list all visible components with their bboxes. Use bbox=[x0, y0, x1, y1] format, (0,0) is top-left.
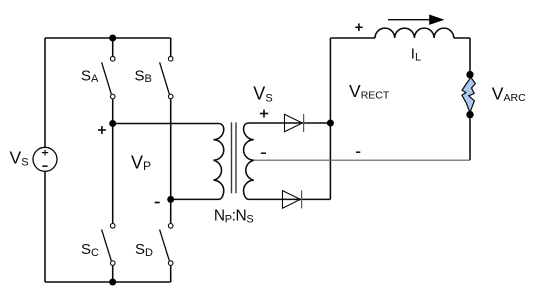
diode D1 (top) bbox=[285, 114, 304, 132]
wire right leg lower (arc bottom to return) bbox=[469, 115, 471, 161]
svg-text:VARC: VARC bbox=[492, 83, 526, 104]
svg-text:VP: VP bbox=[131, 152, 151, 173]
svg-text:VS: VS bbox=[10, 148, 29, 169]
wire left leg lower (Vs source to bottom bus) bbox=[44, 171, 46, 282]
wire leg A stub below switch SC bbox=[112, 266, 114, 282]
wire leg B stub below switch SD bbox=[170, 266, 172, 282]
wire bottom bus left bridge bbox=[45, 281, 171, 283]
node arc bottom terminal bbox=[466, 111, 473, 118]
transformer T1 secondary winding bbox=[244, 123, 285, 199]
svg-text:VRECT: VRECT bbox=[349, 81, 390, 102]
wire primary top (+ node to transformer) bbox=[113, 123, 219, 125]
wire secondary bottom to diode D2 and right riser bbox=[283, 198, 330, 200]
transformer T1 core lines bbox=[232, 122, 237, 193]
wire primary bottom (- node to transformer) bbox=[171, 198, 219, 200]
node primary minus bbox=[167, 196, 174, 203]
label minus (primary) bbox=[155, 202, 160, 204]
svg-text:SB: SB bbox=[135, 67, 152, 85]
node rectifier output bbox=[327, 120, 334, 127]
wire output top right segment bbox=[454, 37, 470, 39]
Vs source minus mark bbox=[42, 165, 47, 167]
node top bus junction bbox=[109, 35, 116, 42]
wire leg A between SA and SC bbox=[112, 99, 114, 223]
wire top bus left bridge bbox=[45, 37, 171, 39]
switch SB bbox=[160, 56, 173, 98]
switch SC bbox=[102, 224, 115, 266]
wire leg B stub above switch SB bbox=[170, 38, 172, 56]
label minus (secondary center tap) bbox=[261, 152, 266, 154]
wire leg A stub above switch SA bbox=[112, 38, 114, 56]
Vs source plus mark bbox=[42, 150, 48, 156]
voltage source Vs bbox=[33, 147, 57, 171]
current arrow IL bbox=[388, 15, 445, 25]
label plus (primary) bbox=[98, 126, 106, 134]
transformer T1 primary winding bbox=[214, 124, 224, 200]
svg-text:IL: IL bbox=[411, 46, 421, 64]
node arc top terminal bbox=[466, 71, 473, 78]
wire center tap return (gray) bbox=[254, 159, 470, 161]
label plus (Vrect) bbox=[355, 23, 362, 31]
wire secondary top to diode D1 and rectifier node bbox=[285, 122, 331, 124]
label minus (Vrect) bbox=[356, 151, 360, 153]
inductor L1 bbox=[375, 28, 454, 38]
switch SD bbox=[160, 224, 173, 266]
svg-text:SD: SD bbox=[135, 241, 153, 259]
wire left leg upper (top bus to Vs source) bbox=[44, 38, 46, 147]
svg-text:SC: SC bbox=[81, 241, 99, 259]
node primary plus bbox=[109, 120, 116, 127]
wire leg B between SB and SD bbox=[170, 99, 172, 223]
svg-text:NP:NS: NP:NS bbox=[214, 208, 253, 226]
diode D2 (bottom) bbox=[283, 190, 302, 208]
wire output top left segment bbox=[330, 37, 375, 39]
arc gap Varc (lightning bolt) bbox=[462, 77, 476, 112]
wire right leg upper (to arc top) bbox=[469, 38, 471, 75]
node bottom bus junction bbox=[109, 279, 116, 286]
label plus (secondary) bbox=[260, 110, 268, 118]
svg-text:SA: SA bbox=[81, 67, 99, 85]
svg-text:VS: VS bbox=[253, 84, 272, 105]
switch SA bbox=[102, 56, 115, 98]
wire rectifier riser (diode outputs) bbox=[329, 38, 331, 199]
